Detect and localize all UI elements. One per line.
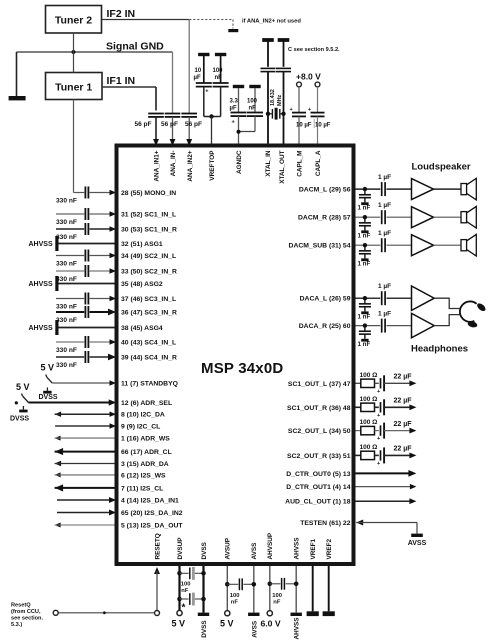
svg-text:1 µF: 1 µF xyxy=(378,202,391,209)
wire VREF2 pin xyxy=(328,566,330,611)
svg-text:5.3.): 5.3.) xyxy=(11,622,22,628)
svg-text:XTAL_IN: XTAL_IN xyxy=(265,150,272,177)
svg-text:34 (49) SC2_IN_L: 34 (49) SC2_IN_L xyxy=(121,253,176,260)
svg-text:22 µF: 22 µF xyxy=(394,446,413,453)
svg-text:MHz: MHz xyxy=(277,94,283,106)
ground AHVSS bar (pin 35) xyxy=(55,276,58,291)
capacitor XTAL_OUT load C xyxy=(283,42,285,67)
wire ANA_IN- into chip xyxy=(172,117,174,140)
wire DACA_L out xyxy=(356,297,381,299)
capacitor 1 nF shunt (DACM_SUB) xyxy=(364,245,366,250)
svg-text:(from CCU,: (from CCU, xyxy=(11,609,41,615)
svg-text:1 µF: 1 µF xyxy=(378,283,391,290)
ground AVSS (TESTEN) xyxy=(411,534,423,537)
node on ResetQ wire xyxy=(103,611,106,614)
svg-text:65 (20) I2S_DA_IN2: 65 (20) I2S_DA_IN2 xyxy=(121,510,183,517)
wire DACM_R to amp xyxy=(387,216,412,218)
svg-text:AHVSS: AHVSS xyxy=(29,281,53,288)
wire AUD_CL_OUT out xyxy=(356,500,411,502)
wire IF1 IN from T1 xyxy=(102,86,156,88)
svg-text:100: 100 xyxy=(181,581,191,587)
node ADR_SEL left xyxy=(15,401,18,404)
svg-text:100 Ω: 100 Ω xyxy=(360,419,378,426)
svg-text:330 nF: 330 nF xyxy=(56,362,77,369)
svg-text:100 Ω: 100 Ω xyxy=(360,396,378,403)
capacitor 22 uF (SC1_OUT_L) xyxy=(380,378,382,388)
svg-text:DVSS: DVSS xyxy=(10,415,29,422)
rail bar above 100 nF (vreftop) xyxy=(215,53,226,56)
node DACA_L junction xyxy=(363,296,367,300)
wire D_CTR_OUT0 out xyxy=(356,472,411,474)
svg-text:AUD_CL_OUT (1) 18: AUD_CL_OUT (1) 18 xyxy=(285,499,351,506)
svg-text:VREF1: VREF1 xyxy=(310,538,317,559)
svg-text:AHVSS: AHVSS xyxy=(29,241,53,248)
switch 5V to ADR_SEL xyxy=(22,394,23,397)
wire SC2_OUT_R out arrow xyxy=(384,454,410,456)
svg-text:330 nF: 330 nF xyxy=(56,276,77,283)
svg-text:ResetQ: ResetQ xyxy=(11,602,31,608)
svg-text:32 (51) ASG1: 32 (51) ASG1 xyxy=(121,241,163,248)
svg-text:330 nF: 330 nF xyxy=(56,219,77,226)
svg-text:MSP 34x0D: MSP 34x0D xyxy=(201,360,283,377)
wire AHVSS pin xyxy=(295,566,297,613)
svg-text:nF: nF xyxy=(249,106,257,112)
svg-text:330 nF: 330 nF xyxy=(56,234,77,241)
svg-text:µF: µF xyxy=(194,75,201,81)
wire AVSUP pin xyxy=(226,566,228,611)
svg-text:39 (44) SC4_IN_R: 39 (44) SC4_IN_R xyxy=(121,355,177,362)
capacitor 22 uF (SC1_OUT_R) xyxy=(380,402,382,412)
wire RESETQ pin xyxy=(154,567,160,574)
svg-text:D_CTR_OUT0 (5) 13: D_CTR_OUT0 (5) 13 xyxy=(286,471,350,478)
terminal +8.0V CAPL_A xyxy=(315,82,320,87)
svg-text:+8.0 V: +8.0 V xyxy=(296,72,321,82)
svg-text:if ANA_IN2+ not used: if ANA_IN2+ not used xyxy=(242,18,301,24)
svg-text:Tuner 1: Tuner 1 xyxy=(55,82,92,94)
svg-text:DVSUP: DVSUP xyxy=(177,537,184,560)
wire T2 bottom to T1 top xyxy=(73,33,75,73)
svg-text:330 nF: 330 nF xyxy=(56,347,77,354)
speaker (DACM_R) xyxy=(461,212,467,223)
svg-text:D_CTR_OUT1 (4) 14: D_CTR_OUT1 (4) 14 xyxy=(286,484,350,491)
wire AHVSS to pin 38 xyxy=(59,327,115,329)
svg-text:AVSS: AVSS xyxy=(408,540,427,547)
capacitor 10 uF (CAPL_A) xyxy=(317,87,319,113)
svg-text:SC2_OUT_L (34) 50: SC2_OUT_L (34) 50 xyxy=(288,428,351,435)
wire AHVSS to pin 35 xyxy=(59,283,115,285)
svg-text:5 (13) I2S_DA_OUT: 5 (13) I2S_DA_OUT xyxy=(121,523,183,530)
wire SC1_OUT_L out arrow xyxy=(384,382,410,384)
wire AHVSUP pin xyxy=(269,566,271,611)
svg-text:66 (17) ADR_CL: 66 (17) ADR_CL xyxy=(121,449,172,456)
wire AHVSS to pin 32 xyxy=(59,243,115,245)
svg-text:DACM_L (29) 56: DACM_L (29) 56 xyxy=(299,187,351,194)
svg-text:38 (45) ASG4: 38 (45) ASG4 xyxy=(121,325,163,332)
capacitor 100 nF (VREFTOP) xyxy=(220,56,222,83)
headphones icon xyxy=(460,301,477,321)
capacitor 330 nF (pin 33) xyxy=(56,270,84,272)
node DVSUP cap1 xyxy=(177,571,182,576)
wire resistor to cap (SC2_OUT_R) xyxy=(375,454,379,456)
svg-text:nF: nF xyxy=(231,600,239,606)
wire I2S_DA_IN2 row (input) xyxy=(57,512,110,514)
wire VREFTOP join xyxy=(204,116,221,118)
node XTAL_OUT crystal junction xyxy=(281,112,285,116)
svg-text:AGNDC: AGNDC xyxy=(236,150,243,174)
capacitor 1 nF shunt (DACM_L) xyxy=(364,189,366,194)
resistor 100 Ohm (SC2_OUT_R) xyxy=(361,451,375,459)
wire DACA_R amp to headphone xyxy=(434,315,460,326)
wire resistor to cap (SC1_OUT_L) xyxy=(375,382,379,384)
svg-text:+: + xyxy=(205,89,208,95)
svg-text:28 (55) MONO_IN: 28 (55) MONO_IN xyxy=(121,190,176,197)
ground DVSS xyxy=(198,613,209,616)
svg-text:5 V: 5 V xyxy=(220,619,234,629)
terminal RESETQ node xyxy=(155,611,160,616)
svg-text:10 µF: 10 µF xyxy=(296,123,312,129)
svg-text:+: + xyxy=(377,413,380,419)
rail bar above 10 uF xyxy=(198,53,209,56)
capacitor 100 nF (AVSUP) xyxy=(227,583,238,585)
svg-text:100 Ω: 100 Ω xyxy=(360,372,378,379)
node DVSS cap2 xyxy=(201,597,206,602)
op-amp buffer (DACM_L) xyxy=(412,179,434,200)
capacitor 330 nF (pin 34) xyxy=(56,255,84,257)
svg-text:1 nF: 1 nF xyxy=(358,313,371,320)
wire SC2_OUT_R to resistor xyxy=(356,454,361,456)
wire I2S_DA_IN1 row (input) xyxy=(57,499,110,501)
tuner T1 box xyxy=(46,73,103,100)
wire DVSS pin xyxy=(202,566,204,613)
svg-text:DACA_L (26) 59: DACA_L (26) 59 xyxy=(300,296,351,303)
wire ADR_WS row (output) xyxy=(55,436,61,441)
node DACA_R junction xyxy=(363,323,367,327)
op-amp headphone buffer (DACA_R) xyxy=(412,313,435,337)
svg-text:11 (7) STANDBYQ: 11 (7) STANDBYQ xyxy=(121,381,178,388)
svg-text:100: 100 xyxy=(272,593,282,599)
svg-text:IF2 IN: IF2 IN xyxy=(107,8,136,20)
svg-text:DVSS: DVSS xyxy=(39,394,58,401)
capacitor 22 uF (SC2_OUT_L) xyxy=(380,425,382,435)
capacitor 1 nF shunt (DACM_R) xyxy=(364,217,366,222)
wire DVSUP pin xyxy=(178,566,180,610)
terminal DVSUP 5V xyxy=(177,610,182,615)
svg-text:see section.: see section. xyxy=(11,615,43,621)
node DACM_SUB junction xyxy=(363,243,367,247)
svg-text:330 nF: 330 nF xyxy=(56,197,77,204)
wire amp to speaker (DACM_R) xyxy=(434,216,462,218)
wire SC1_OUT_L to resistor xyxy=(356,382,361,384)
wire DACM_R out xyxy=(356,216,381,218)
svg-text:3.3: 3.3 xyxy=(230,99,239,105)
wire AVSS pin xyxy=(253,566,255,613)
capacitor 1 uF series (DACM_SUB) xyxy=(381,238,383,252)
svg-text:330 nF: 330 nF xyxy=(56,260,77,267)
ground AHVSS xyxy=(291,613,302,616)
wire resistor to cap (SC2_OUT_L) xyxy=(375,430,379,432)
svg-text:31 (52) SC1_IN_L: 31 (52) SC1_IN_L xyxy=(121,212,176,219)
switch 5V to STANDBYQ xyxy=(46,375,47,378)
wire DACM_SUB out xyxy=(356,244,381,246)
capacitor 3.3 uF (AGNDC) xyxy=(238,88,240,113)
svg-text:5 V: 5 V xyxy=(16,382,30,392)
svg-text:100: 100 xyxy=(230,593,240,599)
svg-text:Headphones: Headphones xyxy=(411,344,468,355)
svg-text:35 (48) ASG2: 35 (48) ASG2 xyxy=(121,281,163,288)
node AHVSS cap xyxy=(294,582,299,587)
wire I2S_WS row (output) xyxy=(55,472,61,477)
svg-text:7 (11) I2S_CL: 7 (11) I2S_CL xyxy=(121,485,163,492)
svg-text:C see section 9.5.2.: C see section 9.5.2. xyxy=(288,47,340,53)
svg-text:ANA_IN-: ANA_IN- xyxy=(170,151,177,177)
svg-text:+: + xyxy=(232,120,235,126)
terminal +8.0V CAPL_M xyxy=(297,82,302,87)
wire DACM_SUB to amp xyxy=(387,244,412,246)
wire IF2 IN from T2 to ANA_IN2+ drop xyxy=(102,19,190,21)
wire ADR_CL row (output) xyxy=(55,448,64,455)
rail bar above XTAL_IN cap xyxy=(262,38,274,42)
wire DACM_L out xyxy=(356,188,381,190)
capacitor 56 pF (ANA_IN1+) xyxy=(148,113,164,115)
resistor 100 Ohm (SC2_OUT_L) xyxy=(361,426,375,434)
arrow into ANA_IN2+ pin xyxy=(186,139,192,146)
node junction T2/Signal GND xyxy=(72,50,76,54)
svg-text:22 µF: 22 µF xyxy=(394,398,413,405)
svg-text:1 nF: 1 nF xyxy=(358,341,371,348)
svg-text:SC1_OUT_L (37) 47: SC1_OUT_L (37) 47 xyxy=(288,381,351,388)
svg-text:AHVSS: AHVSS xyxy=(29,325,53,332)
ground DVSS symbol (standby) xyxy=(46,388,48,391)
capacitor 330 nF (pin 36) xyxy=(56,311,84,313)
svg-text:+: + xyxy=(377,461,380,467)
svg-text:10 µF: 10 µF xyxy=(315,123,331,129)
svg-text:Signal GND: Signal GND xyxy=(106,41,164,53)
capacitor 100 nF (AGNDC) xyxy=(254,88,256,113)
svg-text:SC1_OUT_R (36) 48: SC1_OUT_R (36) 48 xyxy=(287,405,351,412)
op-amp IC MSP 34x0D body xyxy=(117,146,354,565)
ground VREF2 xyxy=(323,611,335,616)
resistor 100 Ohm (SC1_OUT_R) xyxy=(361,403,375,411)
svg-text:XTAL_OUT: XTAL_OUT xyxy=(279,150,286,183)
capacitor 10 uF (CAPL_M) xyxy=(298,87,300,113)
op-amp buffer (DACM_R) xyxy=(412,207,434,228)
wire I2S_CL row (output) xyxy=(55,484,64,491)
svg-text:+: + xyxy=(290,107,293,113)
ground (if ANA_IN2+ not used) xyxy=(228,29,238,32)
capacitor 1 uF series (DACM_L) xyxy=(381,182,383,196)
wire ANA_IN2+ into chip xyxy=(188,117,190,140)
svg-text:SC2_OUT_R (33) 51: SC2_OUT_R (33) 51 xyxy=(287,453,351,460)
capacitor 100 nF (DVSUP top) xyxy=(180,572,189,574)
svg-text:1 (16) ADR_WS: 1 (16) ADR_WS xyxy=(121,436,170,443)
svg-text:56 pF: 56 pF xyxy=(185,121,202,128)
svg-text:100: 100 xyxy=(247,99,258,105)
svg-text:12 (6) ADR_SEL: 12 (6) ADR_SEL xyxy=(121,400,172,407)
wire SC1_OUT_R out arrow xyxy=(384,406,410,408)
ground AVSS xyxy=(248,613,259,616)
wire ResetQ horizontal xyxy=(58,612,154,614)
svg-text:Loudspeaker: Loudspeaker xyxy=(412,162,471,173)
wire VREFTOP to chip xyxy=(211,117,213,144)
svg-text:nF: nF xyxy=(273,600,281,606)
svg-text:36 (47) SC3_IN_R: 36 (47) SC3_IN_R xyxy=(121,310,177,317)
svg-text:5 V: 5 V xyxy=(172,619,186,629)
svg-text:RESETQ: RESETQ xyxy=(154,533,161,559)
svg-text:40 (43) SC4_IN_L: 40 (43) SC4_IN_L xyxy=(121,340,176,347)
wire divider between 10uF labels xyxy=(313,119,315,128)
node VREFTOP junction xyxy=(209,114,213,118)
svg-text:33 (50) SC2_IN_R: 33 (50) SC2_IN_R xyxy=(121,269,177,276)
capacitor 56 pF (ANA_IN2+) xyxy=(181,113,197,115)
wire resistor to cap (SC1_OUT_R) xyxy=(375,406,379,408)
capacitor 22 uF (SC2_OUT_R) xyxy=(380,450,382,460)
svg-text:DACA_R (25) 60: DACA_R (25) 60 xyxy=(299,323,351,330)
ground VREF1 xyxy=(307,611,319,616)
svg-text:AHVSS: AHVSS xyxy=(294,617,301,640)
wire I2C_CL row xyxy=(55,425,110,427)
svg-text:DVSS: DVSS xyxy=(201,620,208,638)
wire dashed IF2 alternate xyxy=(189,19,233,21)
svg-text:DACM_R (28) 57: DACM_R (28) 57 xyxy=(298,215,351,222)
ground signal GND left xyxy=(9,96,26,100)
wire SC2_OUT_L to resistor xyxy=(356,430,361,432)
capacitor 1 uF series (DACA_R) xyxy=(381,319,383,333)
svg-text:1 µF: 1 µF xyxy=(378,230,391,237)
wire DACA_R out xyxy=(356,325,381,327)
arrow into ANA_IN- pin xyxy=(170,139,176,146)
node DVSS cap1 xyxy=(201,571,206,576)
capacitor 330 nF (pin 31) xyxy=(56,213,84,215)
wire STANDBYQ row xyxy=(52,382,110,384)
svg-text:100: 100 xyxy=(213,68,224,74)
svg-text:1 nF: 1 nF xyxy=(358,204,371,211)
node DVSUP cap2 xyxy=(177,597,182,602)
svg-text:DACM_SUB (31) 54: DACM_SUB (31) 54 xyxy=(289,243,351,250)
speaker (DACM_L) xyxy=(461,184,467,195)
svg-text:22 µF: 22 µF xyxy=(394,374,413,381)
svg-text:AVSUP: AVSUP xyxy=(225,537,232,559)
wire ANA_IN1+ into chip xyxy=(155,117,157,140)
svg-text:CAPL_M: CAPL_M xyxy=(296,151,303,177)
resistor 100 Ohm (SC1_OUT_L) xyxy=(361,379,375,387)
ground DVSS symbol (adr_sel) xyxy=(22,406,24,410)
wire SC2_OUT_L out arrow xyxy=(384,430,410,432)
wire I2S_DA_OUT row (output) xyxy=(55,522,61,527)
svg-text:1 nF: 1 nF xyxy=(358,260,371,267)
wire Signal GND down to ANA_IN- xyxy=(172,52,174,114)
capacitor 330 nF (pin 30) xyxy=(56,228,84,230)
wire DACA_L amp to headphone xyxy=(434,298,460,308)
wire SC1_OUT_R to resistor xyxy=(356,406,361,408)
svg-text:9 (9) I2C_CL: 9 (9) I2C_CL xyxy=(121,424,160,431)
svg-text:37 (46) SC3_IN_L: 37 (46) SC3_IN_L xyxy=(121,296,176,303)
svg-text:CAPL_A: CAPL_A xyxy=(315,150,322,176)
svg-text:56 pF: 56 pF xyxy=(135,121,152,128)
arrow into ANA_IN1+ pin xyxy=(153,139,159,146)
svg-text:AHVSS: AHVSS xyxy=(294,537,301,560)
capacitor 1 nF shunt (DACA_R) xyxy=(364,326,366,331)
svg-text:IF1 IN: IF1 IN xyxy=(107,75,136,87)
wire Signal GND rail xyxy=(17,51,173,53)
svg-text:10: 10 xyxy=(195,68,202,74)
svg-text:6.0 V: 6.0 V xyxy=(261,619,281,629)
svg-text:18.432: 18.432 xyxy=(270,89,276,106)
rail bar above 3.3 uF xyxy=(233,85,244,88)
op-amp headphone buffer (DACA_L) xyxy=(412,286,435,310)
node AHVSUP cap xyxy=(268,582,273,587)
wire ADR_DA row (output) xyxy=(55,461,62,466)
rail bar above XTAL_OUT cap xyxy=(278,38,290,42)
terminal ResetQ from CCU xyxy=(53,610,58,615)
wire DACA_R to amp xyxy=(387,325,412,327)
wire amp to speaker (DACM_SUB) xyxy=(434,244,462,246)
capacitor XTAL_IN load C xyxy=(267,42,269,67)
rail bar above 100 nF (agndc) xyxy=(249,85,260,88)
terminal AHVSUP 6.0V xyxy=(267,611,272,616)
svg-text:TESTEN (61) 22: TESTEN (61) 22 xyxy=(300,520,350,527)
svg-text:+: + xyxy=(308,107,311,113)
capacitor 56 pF (ANA_IN-) xyxy=(165,113,181,115)
wire Signal GND stub down-left xyxy=(16,52,18,96)
svg-text:1 µF: 1 µF xyxy=(378,310,391,317)
speaker (DACM_SUB) xyxy=(461,240,467,251)
svg-text:ANA_IN1+: ANA_IN1+ xyxy=(153,150,160,181)
svg-text:6 (12) I2S_WS: 6 (12) I2S_WS xyxy=(121,472,166,479)
node DACM_L junction xyxy=(363,187,367,191)
svg-text:56 pF: 56 pF xyxy=(161,121,178,128)
wire I2C_DA row bidirectional xyxy=(55,411,62,416)
capacitor 330 nF (pin 40) xyxy=(56,341,84,343)
node AVSUP cap xyxy=(225,582,230,587)
svg-text:AHVSUP: AHVSUP xyxy=(267,532,274,559)
capacitor 1 uF series (DACM_R) xyxy=(381,210,383,224)
ground AHVSS bar (pin 38) xyxy=(55,320,58,335)
svg-text:1 µF: 1 µF xyxy=(378,174,391,181)
capacitor 330 nF (pin 39) xyxy=(56,356,84,358)
node XTAL_IN crystal junction xyxy=(266,112,270,116)
svg-text:*: * xyxy=(182,603,186,614)
tuner T2 box xyxy=(46,6,102,34)
svg-text:22 µF: 22 µF xyxy=(394,421,413,428)
svg-text:AVSS: AVSS xyxy=(251,542,258,560)
crystal Y1 18.432 MHz xyxy=(271,109,273,119)
capacitor 330 nF (MONO_IN pin 28) xyxy=(84,187,86,199)
svg-text:1 nF: 1 nF xyxy=(358,232,371,239)
wire D_CTR_OUT1 out xyxy=(356,486,411,488)
wire ADR_SEL row xyxy=(29,401,111,403)
wire amp to speaker (DACM_L) xyxy=(434,188,462,190)
svg-text:4 (14) I2S_DA_IN1: 4 (14) I2S_DA_IN1 xyxy=(121,498,179,505)
ground AHVSS bar (pin 32) xyxy=(55,236,58,251)
svg-text:5 V: 5 V xyxy=(41,363,55,373)
svg-text:VREF2: VREF2 xyxy=(326,538,333,559)
svg-text:µF: µF xyxy=(230,106,237,112)
wire DACA_L to amp xyxy=(387,297,412,299)
svg-text:100 Ω: 100 Ω xyxy=(360,444,378,451)
wire VREF1 pin xyxy=(312,566,314,611)
capacitor 10 uF (VREFTOP) xyxy=(203,56,205,83)
capacitor 1 uF series (DACA_L) xyxy=(381,291,383,305)
svg-text:AVSS: AVSS xyxy=(251,620,258,638)
capacitor 100 nF (AHVSUP) xyxy=(270,583,281,585)
node DACM_R junction xyxy=(363,215,367,219)
svg-text:30 (53) SC1_IN_R: 30 (53) SC1_IN_R xyxy=(121,227,177,234)
capacitor reservoir (DVSUP bottom) xyxy=(180,598,189,600)
node AGNDC junction xyxy=(237,130,241,134)
svg-text:ANA_IN2+: ANA_IN2+ xyxy=(187,150,194,181)
svg-text:Tuner 2: Tuner 2 xyxy=(55,15,92,27)
capacitor 1 nF shunt (DACA_L) xyxy=(364,298,366,303)
